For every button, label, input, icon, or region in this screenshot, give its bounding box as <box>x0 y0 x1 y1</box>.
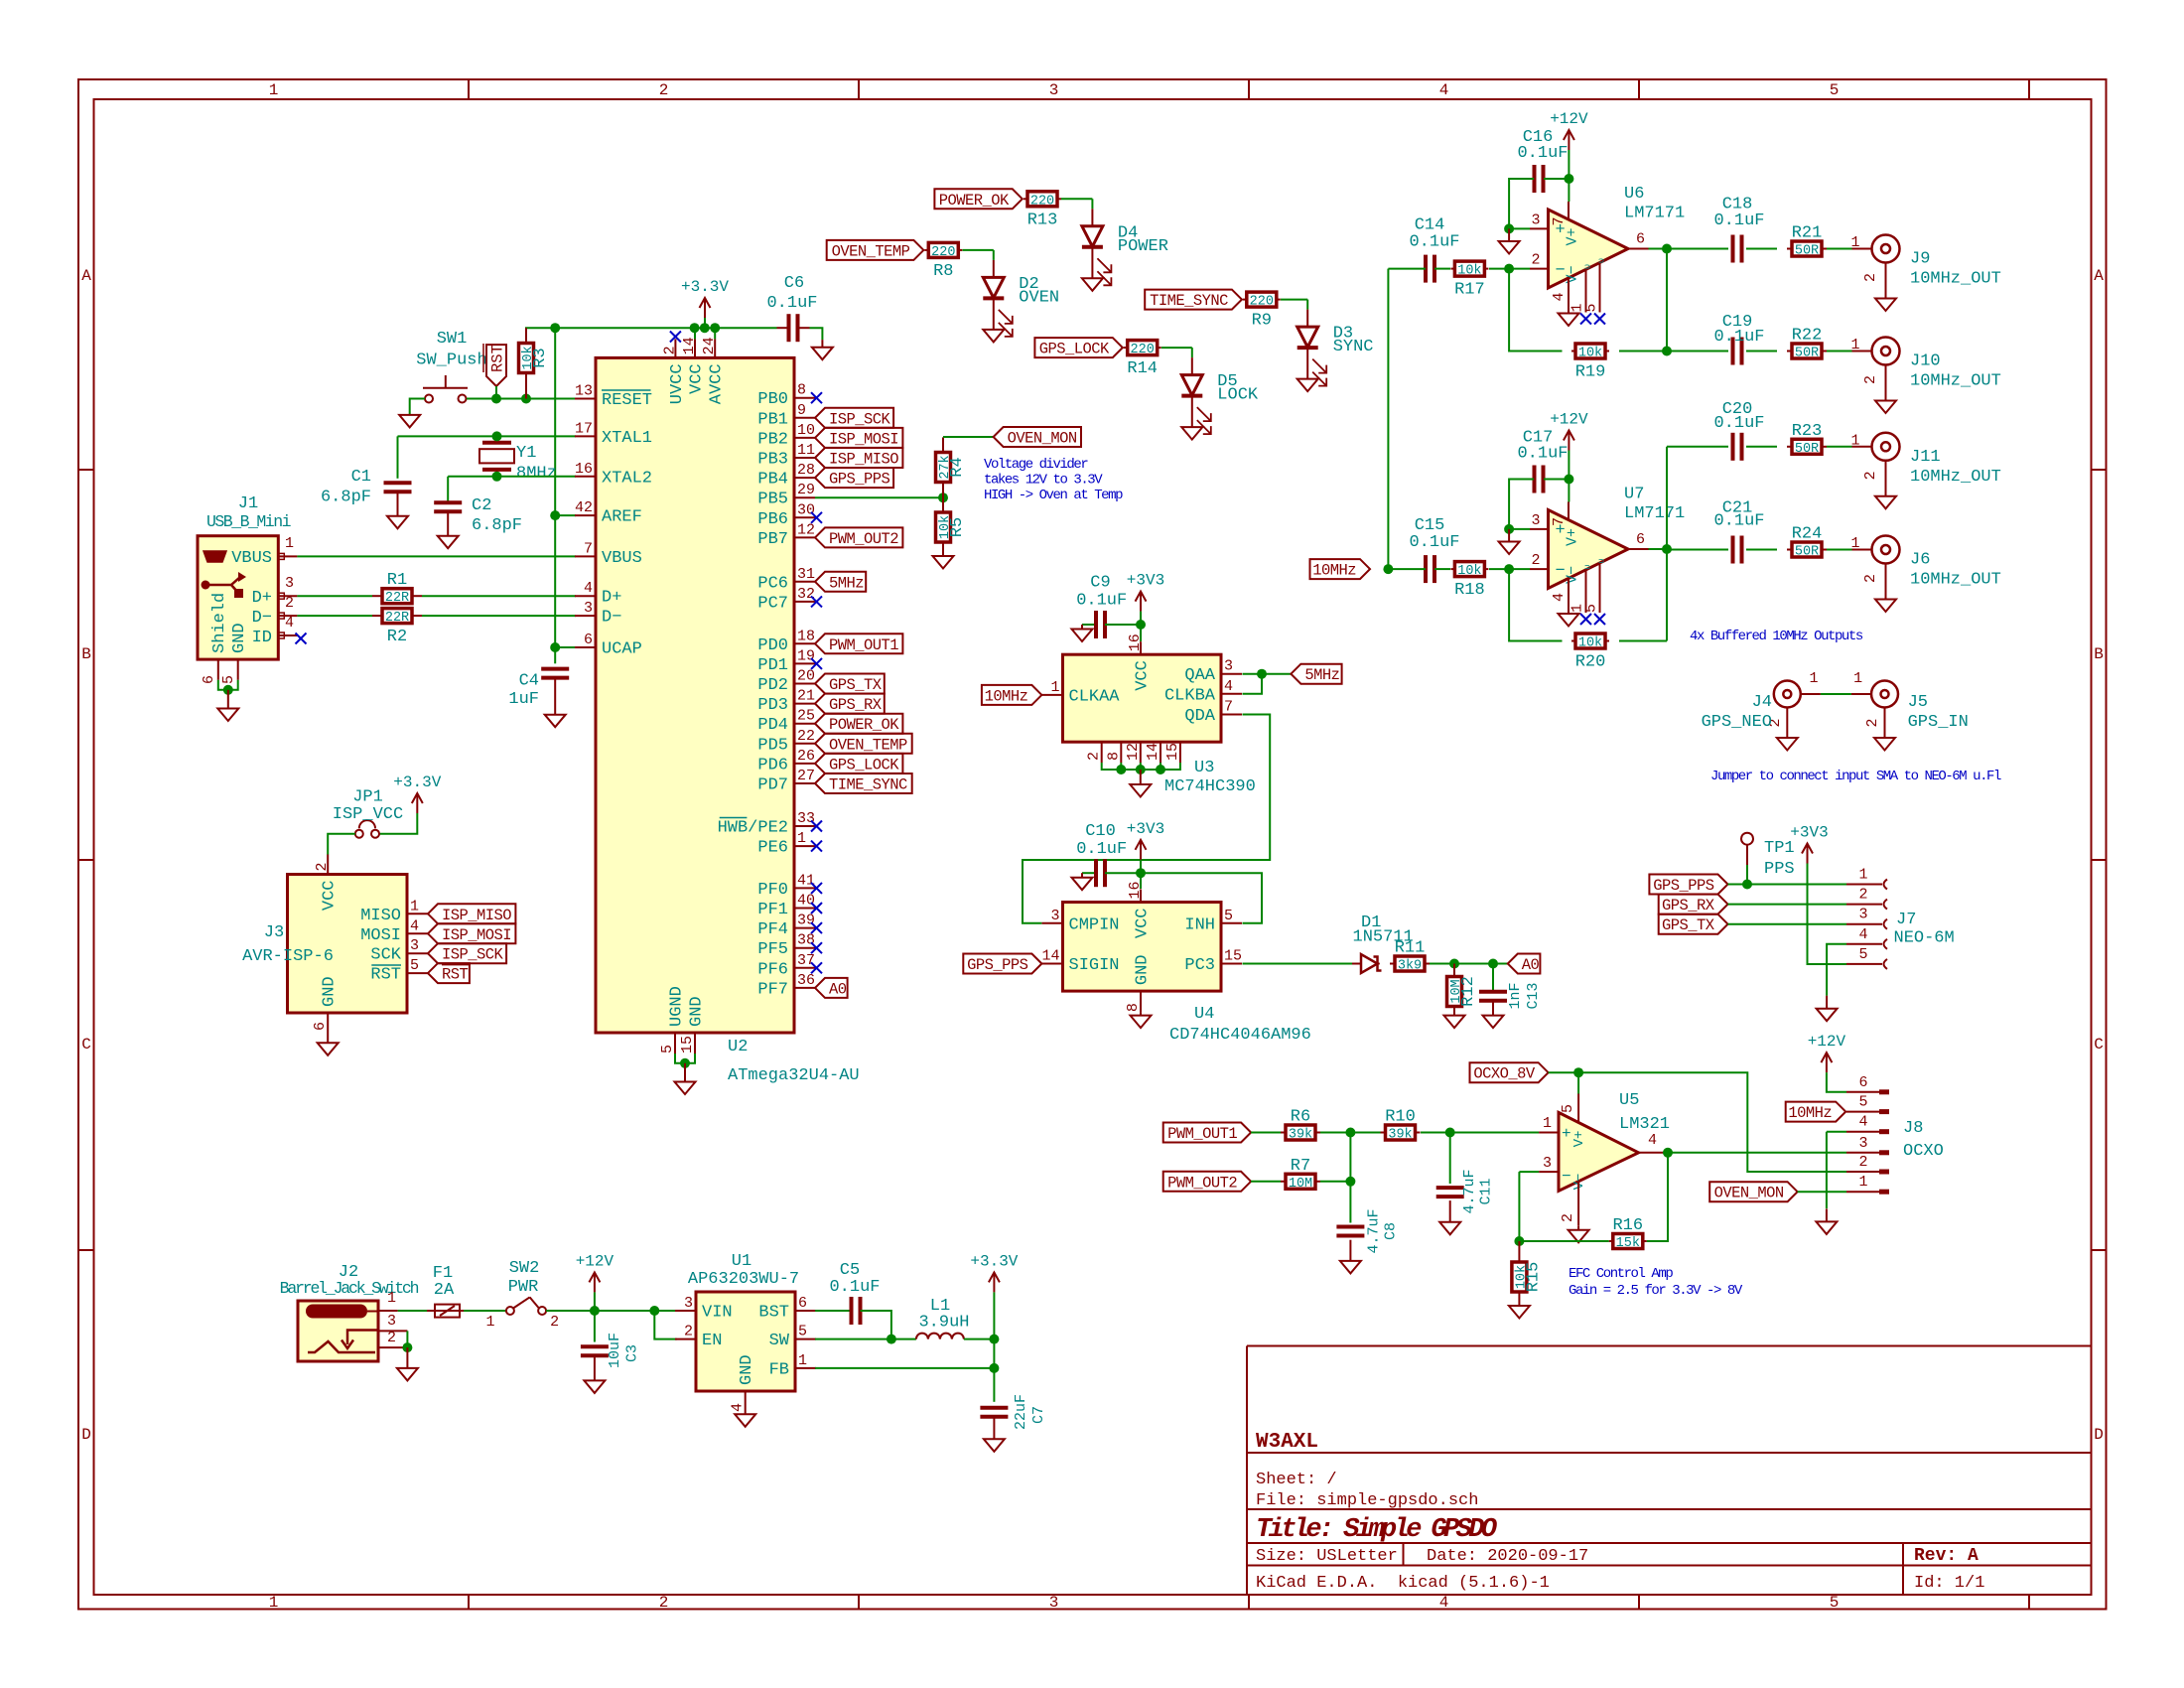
svg-text:4: 4 <box>1858 1114 1867 1131</box>
svg-text:PB0: PB0 <box>757 390 788 409</box>
wire D+ J1 to R1 <box>297 595 372 597</box>
svg-text:3: 3 <box>285 575 294 592</box>
svg-text:4: 4 <box>1439 1594 1449 1612</box>
connector J2 Barrel_Jack_Switch body <box>298 1301 378 1361</box>
resistor R2 <box>372 615 382 617</box>
net label ISP_SCK at U2 PB1 <box>815 408 893 428</box>
svg-text:W3AXL: W3AXL <box>1256 1431 1318 1454</box>
svg-text:Id: 1/1: Id: 1/1 <box>1914 1574 1984 1593</box>
connector J11 BNC 10MHz_OUT <box>1872 433 1900 461</box>
junction pin2 U6 <box>1504 264 1514 274</box>
wire UCAP <box>555 646 576 648</box>
svg-text:VCC: VCC <box>1134 660 1153 691</box>
svg-text:4: 4 <box>1551 593 1568 602</box>
svg-text:4: 4 <box>285 615 294 632</box>
net label GPS_LOCK at LED <box>1034 338 1122 357</box>
wire +3V3 to INH <box>1141 873 1262 923</box>
svg-text:USB_B_Mini: USB_B_Mini <box>206 512 292 531</box>
svg-text:PB5: PB5 <box>757 491 788 509</box>
svg-text:7: 7 <box>584 540 593 557</box>
svg-text:PB2: PB2 <box>757 430 788 449</box>
wire pin3 to gnd node <box>1509 528 1530 530</box>
svg-text:22: 22 <box>797 728 815 745</box>
svg-text:11: 11 <box>797 442 815 459</box>
svg-text:3: 3 <box>1224 658 1233 675</box>
svg-text:10k: 10k <box>1578 636 1602 651</box>
connector J6 BNC 10MHz_OUT <box>1872 536 1900 564</box>
junction +12V U6 <box>1564 174 1573 184</box>
no-connect U2 HWB/PE2 <box>811 821 822 832</box>
svg-text:22R: 22R <box>385 591 409 606</box>
wire 10MHz riser to upper buffer <box>1387 269 1389 569</box>
wire bypass cap left leg <box>1509 480 1534 529</box>
svg-text:10MHz_OUT: 10MHz_OUT <box>1910 571 2001 590</box>
svg-text:GND: GND <box>738 1354 756 1385</box>
svg-text:PD4: PD4 <box>757 716 788 735</box>
svg-text:R11: R11 <box>1395 939 1426 958</box>
capacitor C20 <box>1732 446 1734 448</box>
svg-text:27: 27 <box>797 768 815 784</box>
svg-text:4: 4 <box>1648 1132 1657 1149</box>
svg-text:1: 1 <box>1850 432 1859 449</box>
junction R15 tap <box>1514 1236 1524 1246</box>
no-connect U2 PF5 <box>811 942 822 953</box>
junction QAA CLKBA <box>1257 669 1267 679</box>
power +3V3 at J7 <box>1807 844 1809 864</box>
svg-text:1: 1 <box>485 1314 494 1331</box>
wire J2 pin3 to pin2 <box>406 1331 408 1347</box>
svg-text:1nF: 1nF <box>1507 982 1524 1009</box>
junction C11 tap <box>1445 1128 1455 1138</box>
svg-text:39k: 39k <box>1388 1128 1412 1143</box>
svg-text:Title: Simple GPSDO: Title: Simple GPSDO <box>1256 1515 1497 1545</box>
svg-text:GPS_TX: GPS_TX <box>1662 916 1715 934</box>
svg-text:10MHz_OUT: 10MHz_OUT <box>1910 468 2001 487</box>
U5 pin 1 non-inverting <box>1539 1132 1559 1134</box>
svg-text:R16: R16 <box>1612 1216 1643 1235</box>
svg-text:18: 18 <box>797 628 815 644</box>
svg-text:V+: V+ <box>1565 227 1581 245</box>
svg-text:R6: R6 <box>1291 1108 1310 1127</box>
wire R11 to A0 <box>1430 963 1508 965</box>
svg-text:9: 9 <box>797 402 806 419</box>
svg-text:GPS_PPS: GPS_PPS <box>1653 877 1714 895</box>
svg-text:10MHz: 10MHz <box>985 687 1028 705</box>
wire VBUS J1 to U2 <box>297 555 576 557</box>
ground C11 <box>1439 1222 1460 1235</box>
svg-text:C2: C2 <box>472 496 491 515</box>
svg-text:PD1: PD1 <box>757 656 788 675</box>
capacitor C15 input coupling <box>1425 568 1427 570</box>
net label GPS_PPS at U4 <box>963 954 1041 974</box>
J2 pin 1 <box>378 1310 398 1312</box>
svg-text:0.1uF: 0.1uF <box>1713 211 1764 230</box>
junction R6 R7 <box>1345 1128 1355 1138</box>
wire R20 to output leg <box>1619 640 1667 642</box>
svg-text:C4: C4 <box>519 672 539 691</box>
svg-text:CMPIN: CMPIN <box>1069 915 1120 934</box>
svg-text:PC7: PC7 <box>757 594 788 613</box>
wire VCC pin to rail <box>694 328 696 339</box>
wire OCXO_8V to J8 pin2 <box>1549 1072 1846 1172</box>
wire R10 to U5 pin1 <box>1421 1132 1539 1134</box>
svg-text:PWM_OUT2: PWM_OUT2 <box>1167 1174 1237 1192</box>
svg-text:PC3: PC3 <box>1184 956 1215 975</box>
J2 pin 2 <box>378 1346 407 1348</box>
svg-text:4.7uF: 4.7uF <box>1461 1169 1478 1213</box>
net label 5MHz at U3 <box>1291 664 1341 684</box>
svg-text:33: 33 <box>797 810 815 827</box>
capacitor C6 <box>777 327 789 329</box>
svg-text:2: 2 <box>1086 752 1103 761</box>
svg-text:0.1uF: 0.1uF <box>1517 445 1568 464</box>
wire +3.3V arrow lead <box>993 1292 995 1338</box>
svg-text:GPS_RX: GPS_RX <box>1662 897 1715 914</box>
svg-text:TIME_SYNC: TIME_SYNC <box>829 776 907 794</box>
wire C15 to R18 <box>1434 568 1450 570</box>
svg-text:TP1: TP1 <box>1764 839 1795 858</box>
svg-text:GPS_RX: GPS_RX <box>829 696 883 714</box>
svg-text:1: 1 <box>387 1290 396 1307</box>
resistor R5 <box>942 511 944 513</box>
wire PB5 to divider <box>815 496 943 498</box>
svg-text:5: 5 <box>410 957 419 974</box>
svg-text:1: 1 <box>269 1594 279 1612</box>
wire +12V arrow lead <box>594 1292 596 1311</box>
svg-text:0.1uF: 0.1uF <box>1713 328 1764 347</box>
wire J7 pin4 to gnd <box>1827 944 1846 996</box>
ground J5 <box>1874 738 1895 751</box>
svg-text:5: 5 <box>1830 81 1840 99</box>
junction C10 +3V3 <box>1136 868 1146 878</box>
svg-text:38: 38 <box>797 932 815 949</box>
junction pin2 U7 <box>1504 564 1514 574</box>
svg-text:3: 3 <box>1049 1594 1059 1612</box>
net label ISP_MOSI at J3 <box>428 923 515 943</box>
power +3V3 at U4 <box>1140 840 1142 860</box>
svg-text:PB7: PB7 <box>757 530 788 549</box>
net label PWM_OUT2 at U5 <box>1163 1172 1251 1192</box>
ground C6 <box>821 340 823 348</box>
net label PWM_OUT1 at U2 PD0 <box>815 633 902 653</box>
wire C9 to +3V3 <box>1105 624 1141 626</box>
wire bypass cap right leg <box>1544 178 1569 180</box>
svg-text:GND: GND <box>1134 954 1153 985</box>
ground C3 <box>584 1380 605 1393</box>
svg-text:TIME_SYNC: TIME_SYNC <box>1150 292 1228 310</box>
wire gnd to C9 <box>1082 624 1096 626</box>
junction XTAL1 Y1 <box>492 431 502 441</box>
wire QDA to U4 CMPIN <box>1023 715 1270 923</box>
svg-text:8: 8 <box>1125 1003 1142 1012</box>
op-amp U5 LM321 <box>1559 1112 1639 1191</box>
svg-text:3: 3 <box>1531 512 1540 529</box>
svg-text:16: 16 <box>575 461 593 478</box>
svg-text:8MHz: 8MHz <box>516 464 557 483</box>
junction TP1 <box>1742 880 1752 890</box>
svg-text:3: 3 <box>1543 1155 1552 1172</box>
svg-text:1: 1 <box>1850 234 1859 251</box>
wire junction to U3 VCC <box>1140 625 1142 641</box>
wire XTAL2 <box>448 476 576 478</box>
wire R1 to U2 D+ <box>422 595 576 597</box>
svg-text:Voltage divider: Voltage divider <box>984 457 1088 473</box>
svg-text:+: + <box>1562 1125 1571 1143</box>
capacitor C5 plates <box>851 1310 853 1312</box>
svg-text:10MHz_OUT: 10MHz_OUT <box>1910 372 2001 391</box>
svg-text:1: 1 <box>798 1352 807 1369</box>
svg-text:R13: R13 <box>1027 211 1058 229</box>
svg-text:EN: EN <box>702 1332 722 1350</box>
svg-text:21: 21 <box>797 688 815 705</box>
svg-text:2: 2 <box>1864 718 1881 727</box>
svg-text:AREF: AREF <box>602 508 642 527</box>
svg-text:SW1: SW1 <box>437 330 468 349</box>
net label RST at SW1 <box>486 345 506 386</box>
J1 gnd pin 5 <box>237 659 239 680</box>
svg-text:0.1uF: 0.1uF <box>1713 414 1764 433</box>
svg-text:GPS_TX: GPS_TX <box>829 676 883 694</box>
wire power arrow to rail <box>704 318 706 328</box>
no-connect U2 PB6 <box>811 512 822 523</box>
wire U3 gnd bus <box>1102 763 1180 770</box>
wire PWM_OUT2 to R7 <box>1251 1181 1281 1183</box>
svg-text:6: 6 <box>1858 1074 1867 1091</box>
no-connect U2 PD1 <box>811 658 822 669</box>
svg-text:+3V3: +3V3 <box>1790 824 1828 842</box>
svg-text:3: 3 <box>410 937 419 954</box>
wire SW1 to RESET <box>467 398 576 400</box>
resistor R24 <box>1787 549 1792 551</box>
svg-text:2: 2 <box>1560 1213 1576 1222</box>
svg-text:7: 7 <box>1224 699 1233 716</box>
resistor R21 <box>1787 248 1792 250</box>
wire power to junction U4 <box>1140 860 1142 873</box>
capacitor C19 <box>1732 351 1734 352</box>
svg-text:3: 3 <box>684 1295 693 1312</box>
U2 left pins <box>575 398 596 400</box>
svg-text:+3.3V: +3.3V <box>681 278 729 296</box>
svg-text:PD5: PD5 <box>757 736 788 755</box>
svg-text:2: 2 <box>285 595 294 612</box>
svg-text:16: 16 <box>1127 633 1144 651</box>
wire R18 to pin2 <box>1489 568 1530 570</box>
svg-text:OVEN_MON: OVEN_MON <box>1714 1185 1784 1202</box>
svg-text:2: 2 <box>1858 1154 1867 1171</box>
svg-text:Jumper to connect input SMA to: Jumper to connect input SMA to NEO-6M u.… <box>1710 769 2001 784</box>
svg-text:C6: C6 <box>784 274 804 293</box>
resistor R14 <box>1124 347 1128 349</box>
U2 right pins <box>794 397 815 399</box>
svg-text:6.8pF: 6.8pF <box>321 489 371 507</box>
wire TP1 to GPS_PPS <box>1746 865 1748 885</box>
svg-text:C13: C13 <box>1525 982 1542 1009</box>
svg-text:ISP_VCC: ISP_VCC <box>333 805 403 824</box>
svg-text:VBUS: VBUS <box>231 549 272 568</box>
svg-text:10MHz: 10MHz <box>1788 1104 1832 1122</box>
U5 pin2 gnd <box>1577 1183 1579 1226</box>
svg-text:U6: U6 <box>1624 185 1644 204</box>
net label GPS_PPS at J7 <box>1649 875 1727 895</box>
net label PWM_OUT2 at U2 PB7 <box>815 527 902 547</box>
svg-text:PD7: PD7 <box>757 776 788 795</box>
ground C13 <box>1483 1016 1504 1029</box>
wire +3.3V to JP1 <box>379 813 418 834</box>
junction rail AVCC <box>710 323 720 333</box>
svg-text:4: 4 <box>410 917 419 934</box>
ground R12 <box>1444 1016 1465 1029</box>
IC U1 AP63203WU-7 body <box>696 1292 795 1391</box>
wire 10MHz to input cap <box>1388 268 1426 270</box>
wire to output cap <box>1667 446 1728 448</box>
svg-text:Gain = 2.5 for 3.3V -> 8V: Gain = 2.5 for 3.3V -> 8V <box>1569 1283 1743 1299</box>
switch SW1 SW_Push <box>425 395 433 403</box>
svg-text:FB: FB <box>769 1360 789 1379</box>
svg-text:GPS_PPS: GPS_PPS <box>967 956 1028 974</box>
ground SW1 <box>399 415 420 428</box>
capacitor C7 <box>993 1407 995 1409</box>
svg-text:UVCC: UVCC <box>668 363 687 404</box>
IC U3 MC74HC390 body <box>1063 654 1222 742</box>
wire AVCC pin to rail <box>714 328 716 339</box>
svg-text:0.1uF: 0.1uF <box>1409 233 1459 252</box>
svg-text:U5: U5 <box>1619 1091 1639 1110</box>
svg-text:PWM_OUT1: PWM_OUT1 <box>829 636 898 654</box>
svg-text:4: 4 <box>730 1403 747 1412</box>
net label POWER_OK at U2 PD4 <box>815 714 902 734</box>
svg-text:R15: R15 <box>1524 1262 1543 1293</box>
svg-text:R18: R18 <box>1454 581 1485 600</box>
svg-text:PWR: PWR <box>508 1278 539 1297</box>
svg-text:U7: U7 <box>1624 486 1644 504</box>
junction J2 gnd <box>402 1342 412 1352</box>
svg-text:12: 12 <box>1125 743 1142 761</box>
junction +3.3V out <box>989 1335 999 1344</box>
R12 leads <box>1453 964 1455 977</box>
resistor R17 <box>1450 268 1454 270</box>
svg-text:30: 30 <box>797 501 815 518</box>
ground J1 <box>217 709 238 722</box>
ground U1 <box>735 1414 755 1427</box>
test point TP1 <box>1741 833 1753 845</box>
connector J4 GPS_NEO <box>1774 681 1801 708</box>
junction output U6 <box>1662 244 1672 254</box>
capacitor C14 input coupling <box>1425 268 1427 270</box>
U3 bottom pins <box>1101 742 1103 763</box>
svg-text:SCK: SCK <box>370 946 401 965</box>
wire C10 to +3V3 <box>1105 872 1141 874</box>
svg-text:1: 1 <box>797 830 806 847</box>
svg-text:PF5: PF5 <box>757 940 788 959</box>
svg-text:D: D <box>2094 1426 2104 1444</box>
net label GPS_TX at U2 PD2 <box>815 674 885 694</box>
wire R19 to output leg <box>1619 351 1667 352</box>
svg-text:R19: R19 <box>1575 363 1606 382</box>
svg-text:RST: RST <box>370 966 401 985</box>
svg-text:GND: GND <box>321 976 340 1007</box>
net label 10MHz at J8 <box>1786 1102 1846 1122</box>
svg-text:RST: RST <box>442 966 469 984</box>
svg-text:10uF: 10uF <box>607 1333 623 1368</box>
wire CLKBA loop <box>1243 674 1263 694</box>
svg-text:3: 3 <box>1858 907 1867 923</box>
svg-text:3: 3 <box>1049 81 1059 99</box>
wire to output cap <box>1667 248 1728 250</box>
resistor R1 <box>372 595 382 597</box>
junction U5 output <box>1663 1148 1673 1158</box>
svg-text:A: A <box>2094 267 2104 285</box>
op-amp U7 LM7171 <box>1549 510 1629 589</box>
power +12V at U7 <box>1568 431 1570 451</box>
svg-text:ᴜ: ᴜ <box>1597 558 1607 563</box>
svg-text:MC74HC390: MC74HC390 <box>1164 777 1256 796</box>
svg-text:ATmega32U4-AU: ATmega32U4-AU <box>728 1066 860 1085</box>
svg-text:KiCad E.D.A. kicad (5.1.6)-1: KiCad E.D.A. kicad (5.1.6)-1 <box>1256 1574 1550 1593</box>
crystal Y1 8MHz <box>496 436 498 442</box>
R5 leads <box>942 497 944 512</box>
U2 top pins UVCC VCC AVCC <box>674 339 676 357</box>
svg-text:26: 26 <box>797 748 815 765</box>
wire SW to L1 <box>815 1338 916 1340</box>
svg-text:R23: R23 <box>1792 422 1823 441</box>
svg-text:R3: R3 <box>531 348 550 367</box>
svg-text:VCC: VCC <box>1134 909 1153 939</box>
svg-text:220: 220 <box>1030 194 1054 209</box>
svg-text:Sheet: /: Sheet: / <box>1256 1471 1337 1489</box>
J1 pin 2 D- <box>278 615 297 617</box>
wire +3V3 to J7 pin5 <box>1808 864 1847 965</box>
svg-text:15k: 15k <box>1616 1236 1640 1251</box>
svg-text:6: 6 <box>798 1295 807 1312</box>
switch SW2 PWR <box>506 1307 514 1315</box>
junction U3 gnd 1 <box>1116 765 1126 774</box>
svg-text:36: 36 <box>797 972 815 989</box>
capacitor C8 <box>1349 1226 1351 1228</box>
wire U3 pin8 down <box>1120 763 1122 770</box>
svg-text:10MHz: 10MHz <box>1312 562 1356 580</box>
net label 10MHz at U3 <box>982 685 1042 705</box>
svg-text:C9: C9 <box>1090 574 1110 593</box>
svg-text:15: 15 <box>1164 743 1181 761</box>
svg-text:0.1uF: 0.1uF <box>1076 592 1127 611</box>
svg-text:ISP_SCK: ISP_SCK <box>442 946 504 964</box>
U5 pin 3 inverting <box>1539 1171 1559 1173</box>
IC U4 CD74HC4046AM96 body <box>1063 903 1222 992</box>
U2 bottom pins UGND GND <box>674 1033 676 1054</box>
resistor R10 <box>1381 1132 1386 1134</box>
svg-text:PB3: PB3 <box>757 451 788 470</box>
svg-text:3: 3 <box>387 1313 396 1330</box>
svg-text:R7: R7 <box>1291 1157 1310 1176</box>
svg-text:0.1uF: 0.1uF <box>1713 512 1764 531</box>
svg-text:C8: C8 <box>1382 1222 1399 1240</box>
U5 pin5 V+ <box>1577 1094 1579 1123</box>
svg-text:+12V: +12V <box>1550 110 1588 128</box>
svg-text:4: 4 <box>1224 678 1233 695</box>
svg-text:B: B <box>2094 645 2104 663</box>
wire J8 pin4 to gnd <box>1826 1132 1828 1208</box>
svg-text:ᴜ: ᴜ <box>1583 564 1593 569</box>
svg-text:OVEN_MON: OVEN_MON <box>1008 430 1077 448</box>
ground J7 <box>1826 996 1828 1009</box>
power +3.3V at U1 <box>993 1272 995 1292</box>
wire junction to U4 VCC <box>1140 873 1142 889</box>
wire F1 to SW2 <box>464 1310 506 1312</box>
wire R4 to OVEN_MON label <box>943 436 994 438</box>
connector J7 NEO-6M pins <box>1846 884 1882 886</box>
wire gnd to C10 <box>1082 872 1096 874</box>
svg-text:10: 10 <box>797 422 815 439</box>
